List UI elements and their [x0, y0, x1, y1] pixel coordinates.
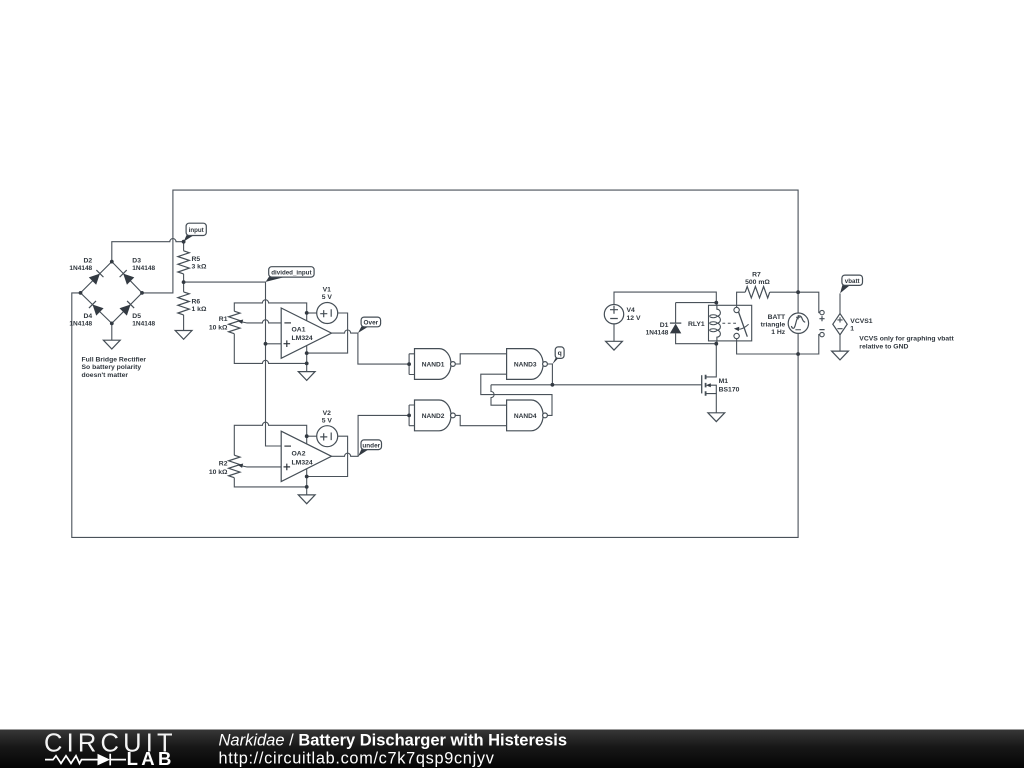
svg-text:LM324: LM324	[292, 335, 313, 342]
wire vbatt flag to VCVS1	[839, 293, 841, 313]
wire divided_input to OA1 non-inverting input	[266, 343, 282, 345]
wire input node to R5	[183, 242, 185, 251]
wire relay lower contact to VCVS minus sense	[737, 335, 820, 354]
NAND gate NAND4	[507, 400, 548, 431]
ground V4	[606, 341, 623, 350]
transistor M1 BS170	[702, 375, 717, 396]
svg-text:5 V: 5 V	[322, 294, 333, 301]
svg-text:NAND2: NAND2	[422, 413, 445, 420]
svg-text:VCVS1: VCVS1	[850, 318, 873, 325]
label D4 1N4148	[69, 313, 92, 327]
svg-text:R7: R7	[752, 272, 761, 279]
svg-text:1N4148: 1N4148	[69, 265, 92, 272]
relay RLY1	[709, 303, 752, 344]
svg-text:OA2: OA2	[292, 451, 306, 458]
label V2 5 V	[322, 410, 333, 425]
node OA1 ground rail	[305, 362, 309, 366]
ground VCVS1	[832, 351, 849, 360]
svg-text:divided_input: divided_input	[271, 269, 311, 276]
label BATT triangle 1 Hz	[761, 314, 786, 336]
op-amp OA1 LM324	[281, 308, 331, 358]
svg-text:vbatt: vbatt	[845, 278, 860, 285]
node q	[551, 383, 555, 387]
svg-text:doesn't matter: doesn't matter	[82, 372, 129, 379]
svg-text:1N4148: 1N4148	[132, 320, 155, 327]
label D5 1N4148	[132, 313, 155, 327]
svg-text:D5: D5	[132, 313, 141, 320]
node bridge right	[140, 291, 144, 295]
svg-text:Full Bridge Rectifier: Full Bridge Rectifier	[82, 356, 147, 363]
node OA2 V- / V2 minus	[305, 475, 309, 479]
wire q feedback to NAND4 upper input (hops)	[491, 385, 507, 405]
label D1 1N4148	[646, 322, 669, 337]
label V4 12 V	[627, 307, 641, 322]
node relay coil bottom / drain	[714, 342, 718, 346]
svg-text:12 V: 12 V	[627, 315, 641, 322]
annotation full bridge rectifier note	[82, 356, 147, 379]
NAND gate NAND3	[507, 349, 548, 380]
net flag input	[184, 223, 207, 241]
node bridge bottom	[110, 322, 114, 326]
ground OA1	[298, 372, 315, 381]
svg-text:10 kΩ: 10 kΩ	[209, 324, 228, 331]
potentiometer R2	[229, 455, 247, 478]
NAND gate NAND2	[415, 400, 456, 431]
svg-text:So battery polarity: So battery polarity	[82, 364, 142, 371]
wire D1 top branch	[676, 302, 717, 304]
svg-text:1 kΩ: 1 kΩ	[192, 306, 207, 313]
wire R2 wiper to OA2 non-inverting input	[247, 466, 282, 468]
svg-text:M1: M1	[719, 378, 729, 385]
op-amp OA2 LM324	[281, 431, 331, 481]
net flag under	[358, 440, 381, 456]
wire R1 top to V+ rail of OA1	[234, 300, 306, 321]
VCVS1 sense terminals	[819, 310, 824, 336]
potentiometer R1	[229, 311, 247, 334]
wire into D1 cathode	[675, 303, 677, 324]
svg-text:V2: V2	[323, 410, 332, 417]
wire OA1 output (Over) to NAND1 inputs	[332, 330, 410, 364]
svg-text:R1: R1	[219, 316, 228, 323]
svg-text:1N4148: 1N4148	[646, 330, 669, 337]
svg-text:BATT: BATT	[768, 314, 786, 321]
svg-text:10 kΩ: 10 kΩ	[209, 469, 228, 476]
wire drain node to M1 drain	[706, 344, 717, 377]
svg-text:http://circuitlab.com/c7k7qsp9: http://circuitlab.com/c7k7qsp9cnjyv	[219, 749, 495, 767]
label R1 10 kOhm	[209, 316, 228, 331]
svg-text:V1: V1	[323, 287, 332, 294]
wire NAND2 input bracket	[409, 405, 414, 426]
svg-text:3 kΩ: 3 kΩ	[192, 264, 207, 271]
wire V1 right terminal to OA1 V- pin	[307, 313, 348, 353]
wire OA1 V- pin to ground	[306, 346, 308, 372]
label V1 5 V	[322, 287, 333, 302]
node bridge top	[110, 260, 114, 264]
V2 polarity glyphs	[320, 433, 331, 441]
V1 polarity glyphs	[320, 309, 331, 317]
annotation VCVS note	[859, 336, 954, 351]
voltage source BATT circle	[788, 313, 808, 333]
svg-text:input: input	[189, 227, 204, 234]
svg-text:OA1: OA1	[292, 326, 306, 333]
node battery minus rail	[796, 352, 800, 356]
node OA2 ground rail	[305, 485, 309, 489]
wire R1 wiper to OA1 inverting input	[247, 320, 282, 323]
svg-text:under: under	[362, 442, 380, 449]
wire NAND2 output to NAND4 lower input	[455, 415, 507, 425]
node OA2 V+ / V2	[305, 434, 309, 438]
svg-text:q: q	[558, 350, 562, 357]
voltage source V2 circle	[317, 426, 338, 447]
wire OA2 output (under) to NAND2 inputs	[332, 415, 410, 456]
svg-text:BS170: BS170	[719, 386, 740, 393]
ground OA2	[298, 495, 315, 504]
wire NAND3 output to q node	[547, 364, 552, 385]
wire outer loop (battery to bridge)	[72, 190, 798, 537]
label D2 1N4148	[69, 257, 92, 272]
wire R7 to VCVS plus sense	[770, 292, 820, 312]
wire bridge top to input node (hops box edge)	[112, 239, 184, 262]
net flag vbatt	[840, 275, 862, 293]
label VCVS1 1	[850, 318, 873, 333]
node divided_input tap	[182, 280, 186, 284]
ground M1	[708, 413, 725, 422]
voltage source V1 circle	[317, 303, 338, 324]
node divided to OA1+	[264, 342, 268, 346]
wire VCVS1 to ground	[839, 335, 841, 351]
net flag Over	[358, 317, 381, 333]
wire R6 to ground	[183, 315, 185, 331]
wire V4 minus to ground	[613, 324, 615, 341]
full bridge diamond wiring	[81, 262, 143, 324]
wire V2 left terminal	[307, 435, 317, 437]
dependent source VCVS1	[833, 314, 847, 335]
node battery plus rail	[796, 290, 800, 294]
diode D2	[89, 270, 104, 285]
diode D4	[89, 301, 104, 316]
node relay coil top	[714, 301, 718, 305]
net flag q	[552, 347, 564, 364]
svg-text:1N4148: 1N4148	[132, 265, 155, 272]
label R6 1 kOhm	[192, 298, 207, 313]
footer bar	[0, 730, 1024, 768]
svg-text:D3: D3	[132, 257, 141, 264]
svg-text:1: 1	[850, 326, 854, 333]
wire M1 source to ground	[715, 394, 717, 413]
diode D5	[120, 301, 135, 316]
wire R2 bottom to ground rail	[234, 478, 306, 487]
label R5 3 kOhm	[192, 256, 207, 271]
svg-text:triangle: triangle	[761, 322, 786, 329]
svg-text:LAB: LAB	[127, 748, 175, 768]
label M1 BS170	[719, 378, 740, 393]
svg-text:LM324: LM324	[292, 459, 313, 466]
svg-text:Over: Over	[364, 319, 379, 326]
wire V2 right terminal to OA2 V- pin	[307, 436, 348, 476]
wire V4 plus to relay coil top	[614, 292, 716, 304]
V4 polarity glyphs	[610, 306, 618, 319]
wire bridge bottom to ground	[111, 323, 113, 340]
wire relay upper contact to R7	[737, 292, 746, 307]
svg-text:D1: D1	[660, 322, 669, 329]
svg-text:5 V: 5 V	[322, 418, 333, 425]
svg-text:relative to GND: relative to GND	[859, 343, 908, 350]
resistor R6	[178, 292, 189, 315]
node bridge left	[79, 291, 83, 295]
label D3 1N4148	[132, 257, 155, 272]
node OA1 V+ / V1	[305, 311, 309, 315]
svg-text:R6: R6	[192, 298, 201, 305]
wire D1 anode to drain node	[676, 333, 717, 343]
wire OA2 V- pin to ground	[306, 469, 308, 495]
resistor R7	[745, 287, 770, 298]
diode D1 1N4148 (flyback)	[670, 323, 681, 333]
svg-text:D2: D2	[83, 257, 92, 264]
svg-text:NAND4: NAND4	[514, 413, 537, 420]
logo resistor-diode glyph	[45, 754, 126, 766]
label R7 500 mOhm	[745, 272, 770, 286]
svg-text:RLY1: RLY1	[688, 321, 705, 328]
node input	[182, 240, 186, 244]
svg-text:500 mΩ: 500 mΩ	[745, 279, 770, 286]
wire NAND1 output to NAND3 upper input	[455, 354, 507, 364]
ground R6	[175, 331, 192, 340]
wire NAND1 input bracket	[409, 354, 414, 375]
net flag divided_input	[266, 267, 315, 282]
wire q node to M1 gate	[491, 384, 702, 386]
resistor R5	[178, 251, 189, 274]
svg-text:NAND3: NAND3	[514, 361, 537, 368]
svg-text:R5: R5	[192, 256, 201, 263]
ground bridge	[103, 340, 120, 349]
BATT triangle-wave glyphs	[791, 316, 805, 328]
voltage source V4 circle	[604, 305, 623, 324]
wire NAND4 output feedback to NAND3 lower input	[481, 374, 552, 415]
svg-text:D4: D4	[83, 313, 92, 320]
wire R1 bottom to ground rail	[234, 334, 306, 364]
node NAND1 input tie	[407, 362, 411, 366]
svg-text:VCVS only for graphing vbatt: VCVS only for graphing vbatt	[859, 336, 954, 343]
svg-text:1 Hz: 1 Hz	[771, 329, 786, 336]
wire divided_input node to OA2 inverting input	[184, 282, 282, 446]
label R2 10 kOhm	[209, 461, 228, 476]
wire R5 to R6 through divided node	[183, 274, 185, 292]
svg-text:Narkidae / Battery Discharger: Narkidae / Battery Discharger with Histe…	[219, 732, 568, 750]
NAND gate NAND1	[415, 349, 456, 380]
svg-text:1N4148: 1N4148	[69, 320, 92, 327]
node NAND2 input tie	[407, 414, 411, 418]
wire R2 top to V+ rail of OA2	[234, 422, 306, 455]
svg-text:V4: V4	[627, 307, 636, 314]
diode D3	[120, 270, 135, 285]
wire V1 left terminal	[307, 312, 317, 314]
node OA1 V- / V1 minus	[305, 351, 309, 355]
svg-text:R2: R2	[219, 461, 228, 468]
svg-text:NAND1: NAND1	[422, 361, 445, 368]
